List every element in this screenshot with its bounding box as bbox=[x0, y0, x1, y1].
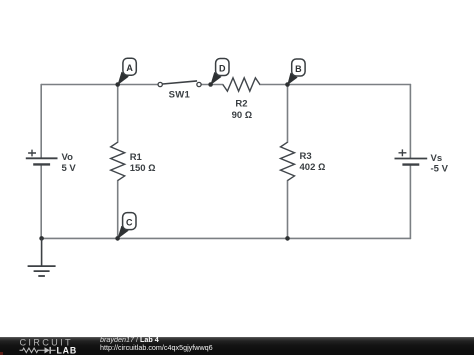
svg-text:C: C bbox=[126, 218, 133, 228]
resistor R3 bbox=[281, 142, 295, 180]
wire top rail left: A to left rail corner bbox=[41, 84, 158, 86]
svg-text:150 Ω: 150 Ω bbox=[130, 163, 156, 174]
label R3 402 ohm bbox=[300, 151, 326, 173]
svg-text:LAB: LAB bbox=[57, 346, 77, 355]
svg-text:R1: R1 bbox=[130, 152, 143, 163]
svg-text:90 Ω: 90 Ω bbox=[232, 110, 253, 121]
footer bar bbox=[0, 337, 474, 355]
wire left rail lower (battery Vo bottom to bottom rail) bbox=[40, 165, 42, 238]
label Vo 5 V bbox=[62, 152, 77, 174]
label Vs -5 V bbox=[431, 153, 449, 175]
svg-text:SW1: SW1 bbox=[169, 90, 191, 101]
wire bottom rail bbox=[41, 237, 410, 239]
switch SW1 bbox=[158, 81, 201, 87]
node A bbox=[115, 58, 136, 87]
svg-text:Vs: Vs bbox=[431, 153, 443, 164]
wire R3 bottom to bottom rail bbox=[287, 181, 289, 239]
junction R3 bottom bbox=[285, 236, 290, 241]
label R1 150 ohm bbox=[130, 152, 156, 174]
svg-text:402 Ω: 402 Ω bbox=[300, 162, 326, 173]
label R2 90 ohm bbox=[232, 98, 253, 121]
node D bbox=[208, 59, 229, 87]
svg-text:Vo: Vo bbox=[62, 152, 74, 163]
svg-text:5 V: 5 V bbox=[62, 163, 77, 174]
node B bbox=[285, 59, 305, 87]
svg-text:-5 V: -5 V bbox=[431, 164, 449, 175]
ground bbox=[28, 238, 56, 276]
wire right rail lower (bottom rail to battery Vs bottom) bbox=[409, 165, 411, 238]
svg-text:R2: R2 bbox=[235, 98, 247, 109]
wire right rail upper (battery Vs top plate to top rail corner) bbox=[409, 85, 411, 158]
wire R1 bottom to node C bbox=[117, 181, 119, 239]
battery Vs (-5 V) bbox=[395, 149, 428, 164]
svg-text:R3: R3 bbox=[300, 151, 312, 162]
label SW1 bbox=[169, 90, 191, 101]
CircuitLab logo bbox=[0, 337, 95, 355]
svg-text:D: D bbox=[219, 63, 226, 73]
node C bbox=[115, 213, 136, 241]
wire node B to R3 top bbox=[287, 85, 289, 143]
resistor R1 bbox=[111, 142, 125, 180]
resistor R2 bbox=[223, 78, 260, 91]
wire node A to R1 top bbox=[117, 85, 119, 143]
wire left rail upper (corner to battery Vo top plate) bbox=[40, 85, 42, 158]
battery Vo (5 V) bbox=[26, 150, 58, 165]
wire top rail right: B to right rail corner bbox=[260, 84, 411, 86]
bottom-left red speck bbox=[0, 352, 3, 355]
credit text bbox=[100, 336, 213, 352]
svg-text:B: B bbox=[295, 64, 302, 74]
svg-text:A: A bbox=[126, 63, 133, 73]
wire switch SW1 right terminal to node D bbox=[201, 84, 223, 86]
junction ground tap bbox=[39, 236, 44, 241]
